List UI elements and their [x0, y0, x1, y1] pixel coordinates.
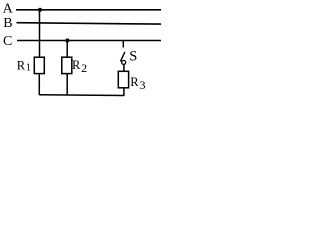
- junction dot on bus A: [38, 8, 42, 12]
- wire from R3 to bottom rail: [123, 88, 125, 96]
- wire from R1 to bottom rail: [38, 74, 40, 96]
- wire from R2 to bottom rail: [66, 74, 68, 96]
- wire from bus C down to R2: [66, 41, 68, 58]
- switch S contact circle: [122, 60, 126, 64]
- svg-text:B: B: [3, 16, 12, 31]
- svg-text:R3: R3: [130, 75, 145, 92]
- resistor R2 body: [62, 57, 72, 73]
- svg-text:R1: R1: [17, 58, 31, 73]
- wire from switch to R3: [123, 65, 125, 72]
- bus wire A: [16, 9, 161, 11]
- bus wire C: [17, 40, 161, 42]
- svg-text:S: S: [129, 49, 137, 65]
- resistor R3 body: [118, 71, 128, 88]
- junction dot on bus C: [65, 38, 69, 42]
- bottom rail wire: [39, 94, 124, 97]
- switch S lever: [120, 52, 125, 62]
- svg-text:C: C: [3, 34, 12, 49]
- wire stub from bus C to switch S: [122, 41, 124, 48]
- wire from bus A down to R1: [39, 10, 41, 57]
- svg-text:A: A: [3, 2, 14, 17]
- resistor R1 body: [34, 57, 44, 73]
- svg-text:R2: R2: [72, 58, 87, 75]
- bus wire B: [17, 23, 162, 24]
